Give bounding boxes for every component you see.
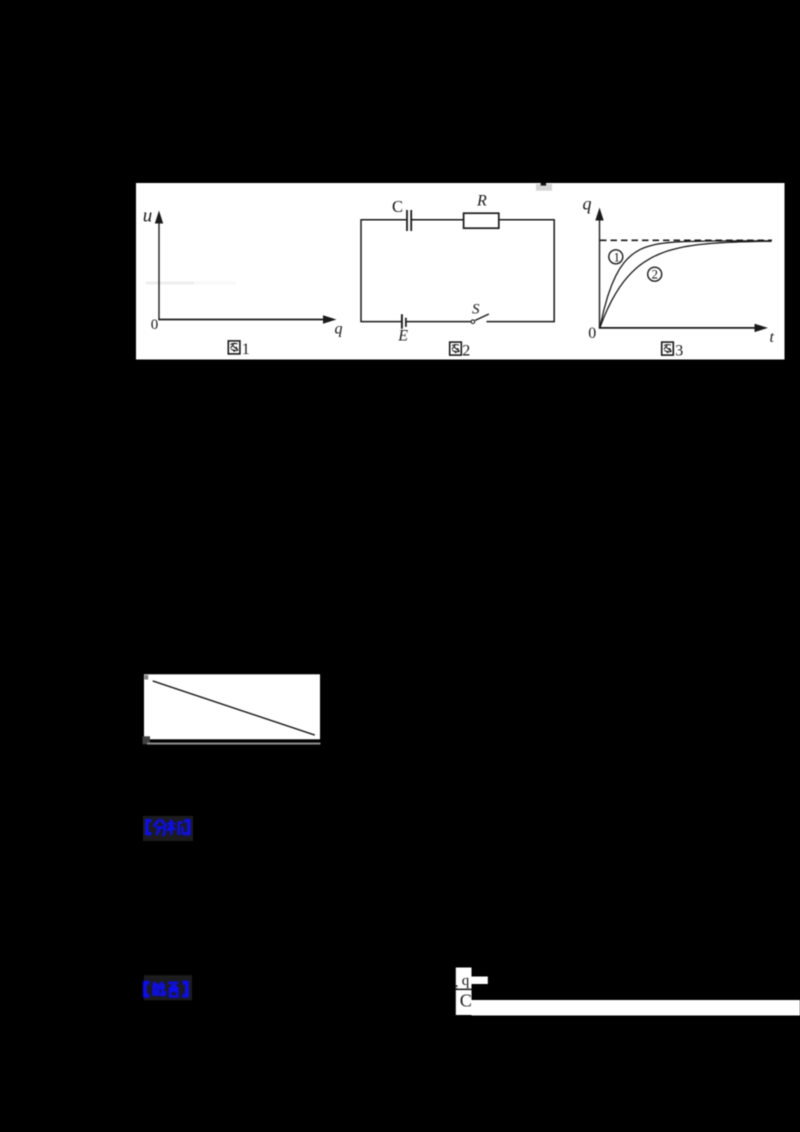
- battery E (cell plates): [402, 314, 406, 329]
- svg-text:q: q: [583, 194, 592, 214]
- capacitor C (plates): [407, 210, 411, 231]
- wire: right side of loop: [553, 219, 555, 322]
- scan artifact grey patch top of band: [536, 183, 552, 191]
- svg-text:u: u: [143, 206, 153, 227]
- fig3 curve 1 (fast charging): [600, 241, 772, 328]
- equals sign fragment: [455, 985, 458, 987]
- fig3 curve 2 (slow charging): [600, 241, 772, 328]
- svg-text:0: 0: [151, 317, 159, 333]
- fig1 caption 图1: [228, 341, 250, 358]
- grey underline: [147, 743, 321, 745]
- figure band white background: [136, 183, 785, 360]
- switch S (pivot circle + lever): [471, 314, 489, 324]
- svg-text:2: 2: [462, 342, 470, 359]
- svg-text:C: C: [460, 990, 472, 1010]
- fig3 label circled 1: [609, 249, 623, 264]
- svg-text:R: R: [476, 193, 487, 210]
- svg-text:t: t: [770, 329, 775, 346]
- resistor R (box): [464, 213, 499, 228]
- white box background: [144, 674, 320, 739]
- svg-text:1: 1: [242, 341, 250, 358]
- fig3 horizontal axis (t): [599, 324, 768, 332]
- svg-text:C: C: [392, 197, 403, 216]
- fig3 caption 图3: [662, 342, 684, 360]
- fig1 vertical axis (u): [155, 211, 163, 320]
- wire: top side of loop (two segments around C and R): [361, 219, 554, 221]
- svg-text:0: 0: [588, 325, 596, 342]
- svg-text:3: 3: [675, 343, 683, 360]
- wire: bottom side of loop (segments around E and S): [361, 321, 554, 323]
- svg-text:E: E: [397, 328, 408, 345]
- svg-text:S: S: [472, 302, 480, 318]
- fig1 horizontal axis (q): [158, 315, 336, 323]
- svg-text:2: 2: [652, 267, 659, 282]
- diagonal line: [153, 681, 315, 735]
- fig3 vertical axis (q): [595, 208, 603, 329]
- svg-text:q: q: [335, 321, 343, 338]
- fig3 label circled 2: [648, 267, 662, 282]
- svg-text:q: q: [462, 973, 470, 989]
- wire: left side of loop: [360, 219, 362, 322]
- grey handle square top-left: [144, 675, 148, 680]
- fig3 dashed asymptote: [600, 239, 772, 241]
- fig2 caption 图2: [450, 342, 471, 359]
- dark mark bottom-left: [143, 736, 151, 744]
- faint artifact line in fig1: [146, 282, 236, 285]
- fraction bar: [456, 989, 472, 991]
- svg-text:1: 1: [614, 249, 621, 264]
